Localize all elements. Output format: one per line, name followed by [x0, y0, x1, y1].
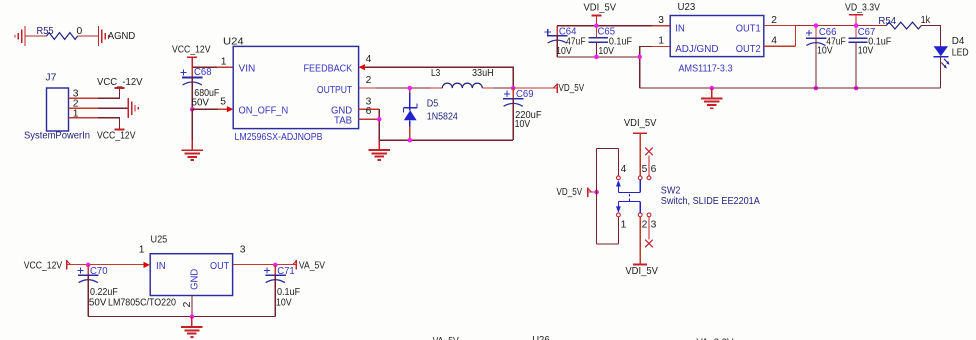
wire feedback rail: [365, 67, 513, 88]
svg-text:LED: LED: [952, 48, 969, 59]
wire to U24 pin1: [192, 66, 233, 68]
port VD_5V to SW2: [557, 187, 597, 198]
svg-text:10V: 10V: [817, 46, 833, 57]
junction C66 top: [814, 23, 819, 28]
pin 3: [69, 89, 99, 100]
ground at J7 pin2 (rotated): [128, 98, 138, 118]
svg-text:10V: 10V: [556, 46, 572, 57]
wire bottom rail U25: [88, 316, 275, 318]
port VD_5V: [553, 83, 584, 94]
junction VD_5V: [594, 190, 599, 195]
wire gnd/tab down: [378, 109, 380, 140]
wire down to ground: [191, 109, 193, 140]
pin 2 wire: [764, 15, 796, 26]
inductor L3: [430, 68, 494, 88]
svg-text:OUT: OUT: [210, 261, 230, 272]
svg-text:VIN: VIN: [239, 64, 256, 75]
svg-text:IN: IN: [675, 23, 685, 34]
svg-text:C71: C71: [277, 266, 295, 277]
svg-text:R54: R54: [878, 16, 896, 27]
capacitor C70: [77, 265, 117, 317]
svg-text:3: 3: [240, 244, 246, 255]
svg-text:AGND: AGND: [108, 31, 136, 42]
svg-text:D5: D5: [427, 98, 439, 109]
resistor R54: [878, 15, 931, 29]
junction C67 bottom: [854, 86, 859, 91]
junction C71: [273, 263, 278, 268]
svg-text:2: 2: [366, 75, 372, 86]
svg-text:1: 1: [658, 35, 664, 46]
svg-text:1: 1: [621, 219, 627, 230]
pin 1 stub U24: [217, 66, 233, 68]
svg-text:C70: C70: [90, 266, 108, 277]
svg-text:SW2: SW2: [661, 185, 681, 196]
capacitor C69: [503, 88, 541, 140]
svg-text:ON_OFF_N: ON_OFF_N: [239, 106, 289, 117]
svg-text:2: 2: [182, 301, 193, 307]
svg-text:LM2596SX-ADJNOPB: LM2596SX-ADJNOPB: [235, 132, 323, 143]
svg-text:10V: 10V: [858, 46, 874, 57]
svg-text:VCC_12V: VCC_12V: [97, 130, 136, 141]
svg-text:4: 4: [771, 35, 777, 46]
wire caps bottom rail: [557, 56, 640, 58]
power VCC_12V: [97, 130, 136, 142]
svg-text:1: 1: [221, 57, 227, 68]
svg-text:3: 3: [651, 219, 657, 230]
svg-text:VCC_12V: VCC_12V: [172, 45, 211, 56]
pin 3 GND stub: [359, 96, 380, 109]
svg-text:U25: U25: [151, 234, 168, 245]
wire ground rail U23: [640, 87, 941, 89]
pin 3 stub U23: [652, 25, 670, 27]
wire pin1 to VCC_12V: [98, 118, 120, 130]
svg-text:VD_5V: VD_5V: [559, 83, 585, 94]
pin 2 OUTPUT stub: [359, 75, 376, 88]
connector J7: [24, 73, 90, 142]
junction at U23 ground: [710, 86, 715, 91]
svg-text:U26: U26: [532, 335, 550, 340]
svg-text:L3: L3: [431, 68, 440, 79]
ground AGND (rotated): [99, 26, 109, 46]
svg-text:R55: R55: [37, 26, 54, 37]
svg-text:33uH: 33uH: [472, 68, 494, 79]
svg-text:LM7805C/TO220: LM7805C/TO220: [108, 298, 176, 309]
capacitor C67: [848, 26, 891, 89]
svg-text:VCC_12V: VCC_12V: [24, 261, 63, 272]
ground below C68: [181, 140, 203, 160]
pin 2: [69, 99, 99, 110]
regulator U24: [223, 37, 359, 143]
svg-text:1: 1: [139, 244, 145, 255]
pin 4 wire: [764, 35, 796, 46]
pin 4 arrow FEEDBACK: [359, 54, 372, 70]
svg-text:C69: C69: [516, 89, 534, 100]
pin 2 GND stub U25: [182, 296, 193, 317]
pin 6 TAB stub: [359, 106, 380, 119]
power VD_3.3V: [845, 3, 880, 26]
svg-text:1N5824: 1N5824: [427, 111, 458, 122]
capacitor C66: [806, 26, 846, 89]
regulator U25: [150, 234, 232, 295]
svg-text:VDI_5V: VDI_5V: [624, 118, 657, 129]
power VDI_5V top of SW2: [624, 118, 657, 176]
power VCC_-12V: [97, 77, 143, 88]
svg-text:4: 4: [621, 164, 627, 175]
pin 5 arrow: [218, 96, 233, 112]
ground under U25: [181, 317, 203, 337]
junction: [190, 107, 195, 112]
svg-text:10V: 10V: [276, 298, 292, 309]
svg-text:0.22uF: 0.22uF: [90, 287, 118, 298]
svg-text:ADJ/GND: ADJ/GND: [675, 44, 718, 55]
svg-text:VA_5V: VA_5V: [433, 336, 459, 340]
svg-text:VDI_5V: VDI_5V: [625, 266, 658, 277]
resistor R55: [37, 26, 83, 39]
svg-text:OUTPUT: OUTPUT: [317, 85, 353, 96]
svg-text:0: 0: [77, 26, 83, 37]
svg-text:J7: J7: [45, 73, 56, 84]
svg-text:IN: IN: [156, 261, 166, 272]
port VA_5V: [292, 260, 325, 271]
svg-text:D4: D4: [952, 36, 965, 47]
svg-text:4: 4: [366, 54, 372, 65]
no-connect X pin 3: [645, 217, 653, 248]
svg-text:3: 3: [658, 15, 664, 26]
svg-text:50V: 50V: [89, 298, 107, 309]
svg-text:10V: 10V: [515, 119, 531, 130]
svg-text:VD_3.3V: VD_3.3V: [845, 3, 880, 14]
svg-text:U23: U23: [678, 2, 696, 13]
wire pin2 to ground: [98, 107, 128, 109]
svg-text:AMS1117-3.3: AMS1117-3.3: [679, 63, 733, 74]
switch SW2: [616, 164, 760, 230]
junction: [377, 117, 382, 122]
no-connect X pin 6: [645, 148, 653, 176]
junction C65 top: [594, 24, 599, 29]
pin 1 arrow U25: [139, 244, 150, 268]
capacitor C71: [264, 265, 300, 317]
svg-text:VD_5V: VD_5V: [557, 187, 583, 198]
svg-text:5: 5: [220, 96, 226, 107]
svg-text:VDI_5V: VDI_5V: [584, 3, 617, 14]
junction C70: [86, 263, 91, 268]
power VCC_12V at C68: [172, 45, 211, 67]
wire to port: [513, 87, 556, 89]
svg-text:10V: 10V: [598, 46, 614, 57]
wire: [25, 35, 47, 37]
capacitor C65: [589, 26, 632, 57]
power VDI_5V at C64: [584, 3, 617, 26]
wire R54 to LED: [921, 26, 940, 47]
svg-text:SystemPowerIn: SystemPowerIn: [24, 130, 90, 141]
svg-text:2: 2: [642, 219, 648, 230]
svg-text:5: 5: [642, 164, 648, 175]
svg-text:50V: 50V: [192, 98, 210, 109]
junction ADJ: [637, 55, 642, 60]
regulator U23: [670, 2, 764, 74]
junction C66 bottom: [814, 86, 819, 91]
junction L3 out: [511, 86, 516, 91]
svg-text:GND: GND: [190, 269, 201, 290]
ground under U23: [701, 88, 723, 108]
svg-text:0.1uF: 0.1uF: [277, 287, 300, 298]
wire SW2 loop: [597, 148, 619, 244]
pin 1 stub U23: [652, 45, 670, 47]
capacitor C64: [545, 26, 586, 57]
power VDI_5V bottom of SW2: [625, 217, 658, 277]
svg-text:C68: C68: [194, 67, 212, 78]
svg-text:1k: 1k: [921, 15, 931, 26]
svg-text:TAB: TAB: [334, 116, 352, 127]
junction D5 bottom: [408, 138, 413, 143]
capacitor C68: [180, 67, 219, 109]
wire output node: [376, 87, 430, 89]
ground under U24: [368, 140, 390, 160]
junction ground U25: [190, 314, 195, 319]
wire bottom rail U24: [379, 139, 513, 141]
junction C67 top: [854, 23, 859, 28]
svg-text:VCC_-12V: VCC_-12V: [97, 77, 143, 88]
svg-text:VA_5V: VA_5V: [299, 261, 325, 272]
ground left of R55 (rotated): [15, 26, 25, 46]
svg-text:2: 2: [771, 15, 777, 26]
pin 1: [69, 109, 99, 120]
svg-text:Switch, SLIDE EE2201A: Switch, SLIDE EE2201A: [661, 196, 760, 207]
wire pin5: [192, 108, 227, 110]
wire: [494, 87, 513, 89]
svg-text:FEEDBACK: FEEDBACK: [304, 64, 353, 75]
svg-text:6: 6: [651, 164, 657, 175]
svg-text:OUT1: OUT1: [736, 23, 761, 34]
wire: [78, 35, 99, 37]
junction C65 bottom: [594, 55, 599, 60]
wire 3.3V rail: [796, 25, 887, 27]
svg-text:6: 6: [366, 106, 372, 117]
junction D5 top: [408, 86, 413, 91]
wire pin3 to VCC_-12V: [98, 88, 120, 98]
wire ADJ to rail: [640, 46, 670, 88]
wire joining out pins: [795, 26, 797, 47]
pin 3 OUT wire: [233, 244, 296, 264]
diode D5 1N5824: [404, 88, 458, 140]
port VCC_12V to U25: [24, 260, 71, 271]
svg-text:1: 1: [73, 109, 79, 120]
wire to U25 pin1: [67, 264, 143, 266]
LED D4: [934, 36, 969, 88]
svg-text:OUT2: OUT2: [736, 44, 761, 55]
wire top rail to U23: [557, 25, 670, 27]
